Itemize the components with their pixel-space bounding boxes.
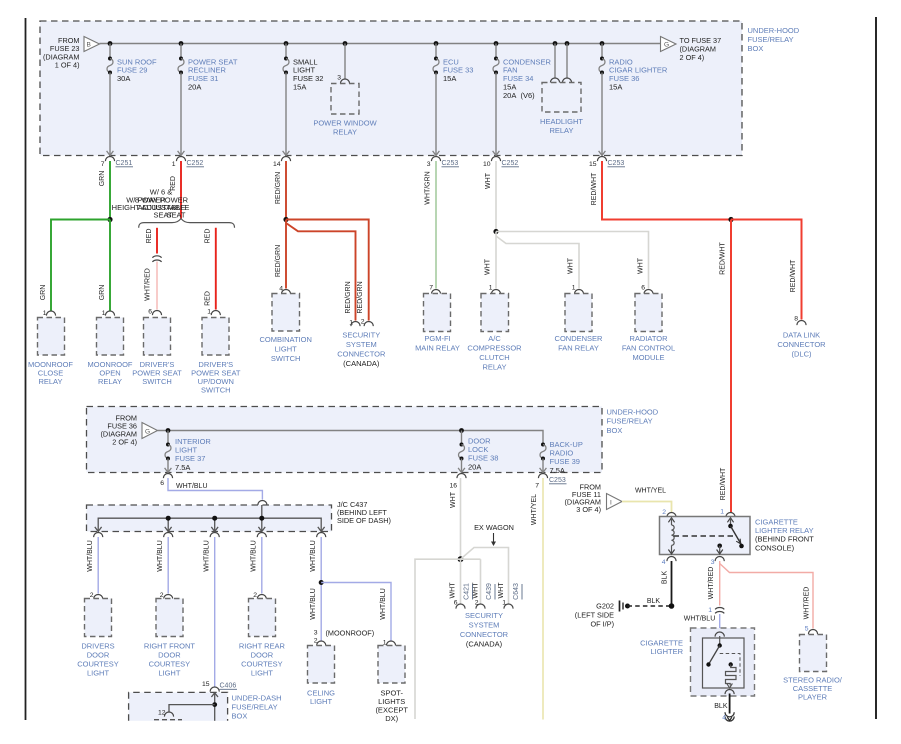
page right border	[875, 17, 877, 719]
svg-text:SWITCH: SWITCH	[271, 354, 301, 363]
svg-text:B: B	[87, 42, 91, 49]
radiator fan control module U3	[622, 285, 675, 362]
under-hood fuse/relay box label 2	[607, 407, 659, 435]
bus junction at x=602	[600, 41, 605, 46]
svg-text:4: 4	[662, 559, 666, 566]
a/c compressor clutch relay K4	[467, 285, 522, 372]
svg-text:COMBINATION: COMBINATION	[260, 335, 312, 344]
svg-text:WHT/BLU: WHT/BLU	[251, 540, 258, 572]
wire RED/WHT from C253 pin 15	[591, 161, 731, 220]
svg-text:7: 7	[535, 483, 539, 490]
wire RED/GRN to security connector pin 2	[286, 220, 369, 321]
J/C internal bus	[95, 505, 325, 532]
svg-text:CIGARETTE: CIGARETTE	[755, 517, 798, 526]
label fuse 34	[503, 57, 552, 100]
svg-text:BLK: BLK	[662, 571, 669, 585]
svg-text:RED/WHT: RED/WHT	[720, 241, 727, 274]
connector pin 6 interior light	[160, 474, 172, 488]
node WHT junction security	[458, 556, 464, 562]
svg-text:7.5A: 7.5A	[550, 466, 565, 475]
svg-text:BOX: BOX	[232, 711, 248, 720]
moonroof close relay K1	[28, 310, 73, 386]
combination light switch S3	[260, 286, 312, 363]
svg-text:C421: C421	[464, 583, 471, 600]
page left border	[25, 18, 27, 720]
connector pin 16 door lock	[449, 474, 466, 490]
svg-text:COURTESY: COURTESY	[77, 659, 119, 668]
svg-text:BLK: BLK	[714, 703, 728, 710]
svg-text:DOOR: DOOR	[87, 650, 110, 659]
wire WHT/BLU to right front door courtesy light	[157, 537, 168, 594]
under-hood fuse/relay box (upper)	[40, 21, 742, 156]
svg-text:GRN: GRN	[40, 285, 47, 301]
svg-text:C253: C253	[549, 477, 566, 484]
bus junction at x=286	[284, 41, 289, 46]
svg-text:WHT/RED: WHT/RED	[708, 567, 715, 600]
svg-text:UNDER-HOOD: UNDER-HOOD	[748, 26, 800, 35]
wire BLK from relay pin 4	[662, 561, 672, 606]
svg-text:SYSTEM: SYSTEM	[346, 340, 377, 349]
svg-text:GRN: GRN	[99, 171, 106, 187]
svg-text:16: 16	[449, 483, 457, 490]
svg-text:RELAY: RELAY	[482, 362, 506, 371]
svg-text:RIGHT FRONT: RIGHT FRONT	[144, 641, 196, 650]
connector C251 pin 7	[101, 157, 133, 169]
bus wire from fuse 23	[100, 43, 661, 45]
ceiling light L4	[307, 628, 374, 706]
J/C exit connector at x=261.8	[257, 533, 266, 538]
connector C252 pin 10	[483, 157, 519, 169]
wire WHT to radiator fan control module	[496, 232, 649, 289]
svg-text:DOOR: DOOR	[251, 650, 274, 659]
fuse F31 power seat recliner	[178, 44, 185, 156]
svg-text:RELAY: RELAY	[333, 127, 357, 136]
svg-text:RELAY: RELAY	[38, 377, 62, 386]
wire RED/WHT to cigarette lighter relay	[720, 220, 732, 513]
svg-text:(CANADA): (CANADA)	[343, 359, 380, 368]
svg-text:FAN RELAY: FAN RELAY	[558, 343, 599, 352]
relay pin 4 connector	[662, 557, 676, 566]
svg-text:SYSTEM: SYSTEM	[469, 621, 500, 630]
headlight relay U2	[540, 78, 583, 135]
svg-text:SWITCH: SWITCH	[201, 386, 231, 395]
svg-text:A/C: A/C	[488, 334, 501, 343]
svg-text:FUSE/RELAY: FUSE/RELAY	[748, 35, 794, 44]
svg-text:LIGHT: LIGHT	[275, 344, 298, 353]
svg-text:RELAY: RELAY	[549, 126, 573, 135]
wire GRN to moonroof open relay	[99, 220, 110, 311]
ex wagon note and arrow	[474, 523, 514, 546]
svg-text:RED/GRN: RED/GRN	[275, 245, 282, 277]
svg-text:FAN CONTROL: FAN CONTROL	[622, 343, 675, 352]
label fuse 29	[117, 57, 157, 83]
bus junction at x=345	[343, 41, 348, 46]
node RED/WHT junction	[728, 217, 733, 222]
svg-text:14: 14	[273, 161, 281, 168]
fuse F37 interior light	[165, 431, 212, 473]
svg-text:2 OF 4): 2 OF 4)	[680, 53, 705, 62]
connector C253 pin 7 back-up radio	[535, 474, 566, 490]
svg-text:10: 10	[483, 161, 491, 168]
bus junction at x=496	[494, 41, 499, 46]
wires to headlight relay	[555, 44, 567, 78]
svg-text:RED/WHT: RED/WHT	[720, 467, 727, 500]
right front door courtesy light L2	[144, 592, 196, 677]
svg-text:WHT: WHT	[450, 491, 457, 508]
under-dash fuse/relay box	[129, 692, 228, 720]
pgm-fi main relay K3	[415, 285, 460, 353]
wire WHT branch left long	[415, 559, 461, 719]
svg-text:WHT/BLU: WHT/BLU	[204, 540, 211, 572]
svg-text:1: 1	[43, 310, 47, 317]
svg-text:7: 7	[101, 161, 105, 168]
svg-text:SECURITY: SECURITY	[465, 611, 503, 620]
wire WHT/BLU to drivers door courtesy light	[87, 537, 98, 594]
svg-text:EX WAGON: EX WAGON	[474, 523, 514, 532]
svg-text:LIGHT: LIGHT	[158, 668, 181, 677]
svg-text:(LEFT SIDE: (LEFT SIDE	[575, 610, 614, 619]
svg-text:2 OF 4): 2 OF 4)	[112, 437, 137, 446]
wire GRN to moonroof close relay	[40, 220, 110, 311]
node WHT junction	[493, 229, 498, 234]
svg-text:C251: C251	[116, 160, 133, 167]
wire WHT/BLU to ceiling light	[310, 537, 321, 641]
bus junction at x=110	[108, 41, 113, 46]
wire WHT/BLU to right rear door courtesy light	[251, 537, 262, 594]
wire RED/GRN to security connector pin 1	[286, 223, 356, 321]
wire WHT/BLU to cigarette lighter	[719, 614, 721, 632]
svg-text:C253: C253	[608, 160, 625, 167]
svg-text:20A (V6): 20A (V6)	[503, 91, 535, 100]
wire WHT/YEL to relay pin 2	[622, 487, 672, 512]
connector C253 pin 15	[589, 157, 625, 169]
svg-text:POWER WINDOW: POWER WINDOW	[313, 118, 377, 127]
svg-text:20A: 20A	[468, 462, 481, 471]
wire RED to inline connector	[146, 228, 157, 254]
fuse F34 condenser fan	[493, 44, 500, 156]
svg-text:MODULE: MODULE	[632, 353, 664, 362]
J/C exit connector at x=168.2	[164, 533, 173, 538]
bus junction at x=436	[434, 41, 439, 46]
label fuse 32	[293, 57, 323, 91]
svg-text:(DLC): (DLC)	[792, 349, 813, 358]
svg-text:PGM-FI: PGM-FI	[424, 334, 450, 343]
svg-text:15A: 15A	[293, 83, 306, 92]
svg-text:BLK: BLK	[647, 598, 661, 605]
svg-text:RED: RED	[146, 229, 153, 244]
note overlapping seat variant text B	[112, 195, 190, 219]
svg-text:LIGHT: LIGHT	[310, 697, 333, 706]
svg-text:DRIVERS: DRIVERS	[81, 641, 114, 650]
svg-text:C406: C406	[220, 683, 237, 690]
svg-text:UNDER-DASH: UNDER-DASH	[232, 693, 282, 702]
spot lights L5	[375, 640, 408, 723]
svg-text:CONNECTOR: CONNECTOR	[777, 340, 826, 349]
fuse F36 radio cigar lighter	[599, 44, 606, 156]
wire WHT/BLU to under-dash fuse/relay box	[204, 537, 215, 687]
svg-text:SIDE OF DASH): SIDE OF DASH)	[337, 516, 391, 525]
svg-text:LIGHT: LIGHT	[87, 668, 110, 677]
svg-text:RED/GRN: RED/GRN	[275, 172, 282, 204]
svg-text:MAIN RELAY: MAIN RELAY	[415, 343, 460, 352]
svg-text:I: I	[610, 499, 612, 506]
svg-text:DX): DX)	[385, 714, 398, 723]
svg-text:1: 1	[489, 285, 493, 292]
label fuse 36	[609, 57, 668, 91]
svg-text:COURTESY: COURTESY	[149, 659, 191, 668]
wire WHT from pin 16	[450, 478, 461, 559]
svg-text:COURTESY: COURTESY	[241, 659, 283, 668]
svg-text:6: 6	[641, 285, 645, 292]
wire WHT/GRN from C253 pin 3	[425, 161, 437, 289]
from fuse 11 source arrow	[565, 482, 623, 514]
wire WHT to a/c compressor clutch relay	[485, 232, 497, 289]
svg-text:WHT/BLU: WHT/BLU	[684, 616, 716, 623]
svg-text:LIGHT: LIGHT	[251, 668, 274, 677]
svg-text:FUSE/RELAY: FUSE/RELAY	[607, 417, 653, 426]
svg-text:RED/WHT: RED/WHT	[790, 259, 797, 292]
wire BLK from cigarette lighter	[714, 694, 734, 722]
from fuse 23 source arrow B	[43, 36, 100, 70]
svg-text:WHT/BLU: WHT/BLU	[157, 540, 164, 572]
svg-text:DATA LINK: DATA LINK	[783, 330, 820, 339]
drivers door courtesy light L1	[77, 592, 119, 677]
security system connector (canada) lower	[450, 582, 523, 649]
svg-text:CONSOLE): CONSOLE)	[755, 543, 795, 552]
svg-text:LIGHTER RELAY: LIGHTER RELAY	[755, 526, 814, 535]
fuse F32 small light	[283, 44, 290, 156]
svg-text:RADIATOR: RADIATOR	[629, 334, 668, 343]
svg-text:(CANADA): (CANADA)	[466, 640, 503, 649]
label fuse 33	[443, 57, 473, 83]
svg-text:G: G	[145, 428, 150, 435]
connector pin 14	[273, 157, 291, 168]
J/C exit connector at x=98.2	[94, 532, 103, 537]
svg-text:3: 3	[711, 559, 715, 566]
svg-text:5: 5	[805, 626, 809, 633]
svg-text:WHT/YEL: WHT/YEL	[531, 494, 538, 525]
to fuse 37 arrow G	[661, 36, 722, 62]
bus junction fuse 38	[459, 428, 464, 433]
svg-text:WHT: WHT	[485, 258, 492, 275]
svg-text:CONNECTOR: CONNECTOR	[460, 630, 509, 639]
wire WHT to security pin 6	[460, 559, 462, 603]
wire RED to up/down switch	[205, 228, 216, 310]
J/C exit connector at x=214.7	[210, 533, 219, 538]
svg-text:30A: 30A	[117, 74, 130, 83]
svg-text:GRN: GRN	[99, 285, 106, 301]
note overlapping seat variant text A	[135, 188, 189, 220]
svg-text:C643: C643	[513, 583, 520, 600]
svg-text:15A: 15A	[609, 83, 622, 92]
connector C406 pin 15	[202, 681, 237, 692]
wire WHT ex wagon branch to security pin 1	[461, 548, 509, 604]
svg-text:BOX: BOX	[607, 426, 623, 435]
svg-text:HEADLIGHT: HEADLIGHT	[540, 117, 583, 126]
svg-text:RED/GRN: RED/GRN	[345, 281, 352, 313]
under-hood fuse/relay box label	[748, 26, 800, 53]
relay pin 3 connector	[711, 557, 725, 567]
svg-text:BOX: BOX	[748, 44, 764, 53]
cigarette lighter relay K6	[660, 508, 751, 554]
wire WHT from C252 pin 10	[485, 161, 496, 232]
bus junction at x=567	[565, 41, 570, 46]
wire WHT/BLU to spot lights	[321, 583, 391, 641]
svg-text:2: 2	[662, 509, 666, 516]
svg-text:G202: G202	[596, 601, 614, 610]
node RED/GRN junction	[283, 217, 288, 222]
from fuse 36 source arrow G	[101, 413, 158, 446]
svg-text:G: G	[664, 42, 669, 49]
wire RED/GRN from pin 14	[275, 161, 286, 220]
svg-text:LIGHTER: LIGHTER	[650, 647, 683, 656]
svg-text:3: 3	[314, 630, 318, 637]
svg-text:SWITCH: SWITCH	[142, 377, 172, 386]
bus junction at x=181	[179, 41, 184, 46]
svg-text:WHT/GRN: WHT/GRN	[425, 171, 432, 204]
svg-text:4: 4	[722, 714, 726, 721]
svg-text:PLAYER: PLAYER	[798, 692, 828, 701]
svg-text:WHT/YEL: WHT/YEL	[635, 487, 666, 494]
svg-text:1: 1	[207, 309, 211, 316]
svg-text:RED: RED	[205, 229, 212, 244]
svg-text:15: 15	[589, 161, 597, 168]
svg-text:WHT: WHT	[485, 172, 492, 189]
wire RED/WHT to data link connector	[731, 220, 802, 320]
svg-text:WHT/BLU: WHT/BLU	[310, 588, 317, 620]
svg-text:RELAY: RELAY	[98, 377, 122, 386]
wire WHT/RED to seat switch	[145, 262, 158, 310]
J/C exit connector at x=321.2	[317, 533, 326, 538]
svg-text:WHT: WHT	[568, 257, 575, 274]
wire GRN from C251	[99, 161, 110, 220]
svg-text:WHT/BLU: WHT/BLU	[176, 483, 208, 490]
svg-text:DOOR: DOOR	[158, 650, 181, 659]
connector C253 pin 3	[427, 157, 459, 168]
svg-text:UNDER-HOOD: UNDER-HOOD	[607, 407, 659, 416]
junction connector J/C C437	[87, 500, 391, 532]
wire RED/GRN to combination light switch	[275, 220, 286, 289]
bus junction fuse 37	[166, 428, 171, 433]
brace over seat switch wires	[139, 219, 235, 228]
wire WHT/YEL from C253 pin 7 long	[531, 478, 543, 720]
svg-text:3: 3	[427, 161, 431, 168]
fuse F29 sun roof	[107, 44, 114, 156]
svg-text:WHT/BLU: WHT/BLU	[380, 588, 387, 620]
wire WHT/BLU from fuse 37 to J/C C437	[168, 478, 262, 500]
driver's power seat up/down switch S2	[191, 309, 241, 395]
ground G202	[575, 598, 675, 629]
svg-text:C253: C253	[442, 160, 459, 167]
cigarette lighter assembly	[691, 628, 755, 696]
svg-text:RED/WHT: RED/WHT	[591, 172, 598, 205]
svg-text:SEAT: SEAT	[166, 210, 185, 219]
svg-text:WHT: WHT	[473, 582, 480, 599]
connector C252 pin 1	[172, 157, 204, 169]
fuse F33 ECU	[433, 44, 440, 156]
svg-text:1: 1	[708, 607, 712, 614]
svg-text:CONNECTOR: CONNECTOR	[337, 349, 386, 358]
cigarette lighter label	[640, 639, 683, 657]
driver's power seat switch S1	[132, 309, 182, 387]
svg-text:1: 1	[720, 508, 724, 515]
data link connector DLC	[777, 316, 826, 359]
bus junction at x=555	[553, 41, 558, 46]
svg-text:20A: 20A	[188, 83, 201, 92]
svg-text:(BEHIND FRONT: (BEHIND FRONT	[755, 535, 814, 544]
svg-text:WHT: WHT	[498, 582, 505, 599]
svg-text:C439: C439	[486, 583, 493, 600]
svg-text:WHT: WHT	[450, 582, 457, 599]
fuse F39 back-up radio	[540, 440, 583, 475]
under-hood fuse/relay box (lower)	[87, 407, 603, 473]
security system connector (canada) upper	[337, 281, 386, 367]
node WHT/BLU junction	[319, 580, 324, 585]
wire WHT to condenser fan relay	[496, 236, 579, 289]
svg-text:WHT/BLU: WHT/BLU	[87, 540, 94, 572]
svg-text:C252: C252	[502, 160, 519, 167]
inline connector on seat switch wire	[152, 256, 161, 262]
svg-text:1: 1	[572, 285, 576, 292]
svg-text:WHT/RED: WHT/RED	[145, 268, 152, 301]
svg-text:15A: 15A	[443, 74, 456, 83]
svg-text:1 OF 4): 1 OF 4)	[55, 61, 80, 70]
wire WHT/RED from relay pin 3	[708, 561, 720, 606]
svg-text:6: 6	[148, 309, 152, 316]
wire WHT branch to security pin 2	[461, 559, 481, 603]
svg-text:RED/GRN: RED/GRN	[357, 281, 364, 313]
power window relay U1	[313, 75, 377, 137]
svg-text:6: 6	[160, 480, 164, 487]
svg-text:WHT/RED: WHT/RED	[804, 587, 811, 620]
fuse F38 door lock	[458, 431, 498, 473]
node GRN junction	[107, 217, 112, 222]
svg-text:CONDENSER: CONDENSER	[555, 334, 604, 343]
svg-text:3: 3	[337, 75, 341, 82]
svg-text:WHT/BLU: WHT/BLU	[310, 540, 317, 572]
svg-text:15: 15	[202, 681, 210, 688]
inline connector 1 to cigarette lighter	[684, 607, 725, 623]
svg-text:RIGHT REAR: RIGHT REAR	[239, 641, 286, 650]
right rear door courtesy light L3	[239, 592, 286, 677]
wire WHT/RED to stereo radio	[720, 564, 813, 629]
svg-text:CLUTCH: CLUTCH	[479, 353, 509, 362]
condenser fan relay K5	[555, 285, 604, 353]
svg-text:7.5A: 7.5A	[175, 463, 190, 472]
bus wire from fuse 36	[158, 431, 544, 445]
svg-text:FUSE/RELAY: FUSE/RELAY	[232, 702, 278, 711]
svg-text:COMPRESSOR: COMPRESSOR	[467, 343, 522, 352]
stereo radio/cassette player	[783, 626, 843, 702]
under-dash internal wiring	[154, 692, 218, 720]
svg-text:3 OF 4): 3 OF 4)	[576, 505, 601, 514]
svg-text:C252: C252	[187, 160, 204, 167]
svg-text:WHT: WHT	[638, 257, 645, 274]
moonroof open relay K2	[88, 310, 133, 386]
svg-text:OF I/P): OF I/P)	[590, 619, 614, 628]
svg-text:1: 1	[172, 161, 176, 168]
svg-text:1: 1	[102, 310, 106, 317]
svg-text:8: 8	[794, 316, 798, 323]
svg-text:RED: RED	[205, 291, 212, 306]
svg-text:SECURITY: SECURITY	[342, 330, 380, 339]
svg-text:(MOONROOF): (MOONROOF)	[326, 628, 375, 637]
wire to power window relay	[344, 44, 346, 79]
under-dash box label	[232, 693, 282, 720]
wire RED from C252	[170, 161, 181, 219]
cigarette lighter relay label	[755, 517, 814, 552]
label fuse 31	[188, 57, 238, 91]
